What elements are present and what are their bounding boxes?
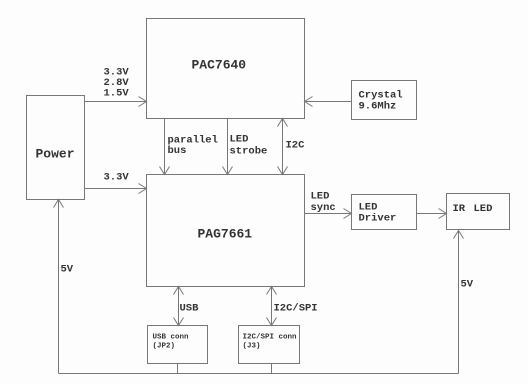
svg-text:USB conn: USB conn bbox=[153, 334, 190, 342]
block Power bbox=[27, 96, 85, 200]
wire Crystal to PAC7640 bbox=[305, 97, 352, 107]
svg-text:LED: LED bbox=[474, 203, 493, 215]
wire bottom 5V rail bbox=[59, 373, 459, 375]
svg-text:PAG7661: PAG7661 bbox=[198, 227, 253, 242]
label LED strobe bbox=[230, 134, 268, 158]
block U1 PAC7640 bbox=[147, 19, 305, 119]
block Crystal 9.6Mhz bbox=[352, 81, 417, 120]
svg-text:bus: bus bbox=[168, 145, 187, 157]
label LED sync bbox=[311, 191, 336, 215]
wire PAG7661 to LED Driver (LED sync) bbox=[305, 209, 352, 219]
block I2C/SPI conn J3 bbox=[239, 326, 300, 364]
wire I2C/SPI (PAG7661 to I2C/SPI conn) bbox=[267, 287, 277, 326]
svg-text:IR: IR bbox=[453, 203, 466, 215]
svg-text:USB: USB bbox=[180, 303, 200, 315]
svg-text:strobe: strobe bbox=[230, 146, 268, 158]
block LED Driver bbox=[352, 195, 417, 230]
svg-text:sync: sync bbox=[311, 202, 336, 214]
svg-text:1.5V: 1.5V bbox=[104, 88, 130, 100]
svg-text:9.6Mhz: 9.6Mhz bbox=[359, 101, 397, 113]
svg-text:PAC7640: PAC7640 bbox=[192, 58, 247, 73]
wire USB conn to bottom rail bbox=[177, 364, 179, 374]
wire I2C/SPI conn to bottom rail bbox=[271, 364, 273, 374]
wire parallel bus bbox=[160, 119, 170, 175]
label 3.3V 2.8V 1.5V bbox=[104, 67, 130, 100]
wire right 5V riser bbox=[454, 231, 464, 374]
svg-text:LED: LED bbox=[311, 191, 330, 203]
svg-text:LED: LED bbox=[230, 134, 249, 146]
svg-text:(J3): (J3) bbox=[243, 343, 261, 351]
wire I2C bbox=[278, 119, 288, 175]
svg-text:I2C: I2C bbox=[286, 140, 306, 152]
svg-text:5V: 5V bbox=[61, 264, 74, 276]
svg-text:I2C/SPI: I2C/SPI bbox=[274, 303, 318, 315]
svg-text:Power: Power bbox=[36, 147, 75, 162]
wire left 5V riser bbox=[54, 200, 64, 374]
wire Power to PAG7661 (3.3V) bbox=[85, 184, 147, 194]
svg-text:I2C/SPI conn: I2C/SPI conn bbox=[243, 334, 298, 342]
svg-text:5V: 5V bbox=[461, 279, 474, 291]
wire USB (PAG7661 to USB conn) bbox=[174, 287, 184, 326]
svg-text:(JP2): (JP2) bbox=[153, 343, 176, 351]
svg-text:Driver: Driver bbox=[359, 213, 397, 225]
wire LED Driver to IR LED bbox=[417, 209, 447, 219]
block USB conn JP2 bbox=[148, 326, 208, 364]
block IR LED bbox=[447, 194, 510, 230]
block U2 PAG7661 bbox=[147, 175, 305, 287]
svg-text:3.3V: 3.3V bbox=[104, 172, 130, 184]
wire LED strobe bbox=[223, 119, 233, 175]
wire Power to PAC7640 (3.3V 2.8V 1.5V) bbox=[85, 97, 147, 107]
label parallel bus bbox=[168, 135, 218, 158]
